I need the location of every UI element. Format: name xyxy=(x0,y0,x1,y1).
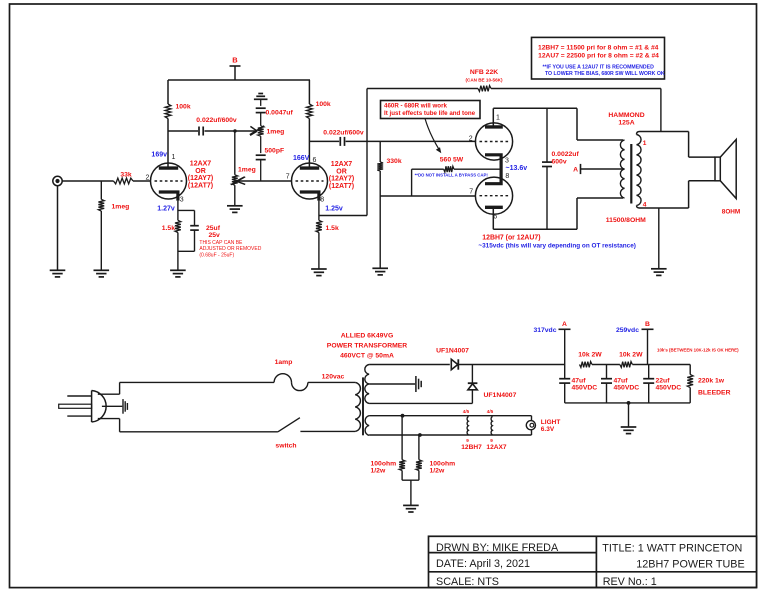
wire lower plate lead xyxy=(492,207,494,229)
wire 100ohm join xyxy=(402,479,419,481)
wire 1.5k V1b to ground xyxy=(318,233,320,270)
wire NFB riser xyxy=(366,89,368,216)
wire secondary bottom to speaker xyxy=(688,181,690,208)
svg-text:2: 2 xyxy=(146,175,150,182)
capacitor 22uf/450VDC xyxy=(648,365,650,379)
svg-text:~315vdc (this will vary depend: ~315vdc (this will vary depending on OT … xyxy=(478,243,636,250)
transformer T2 primary (Hammond 125A) xyxy=(620,140,624,198)
capacitor 500pF xyxy=(256,154,266,156)
ground (filter) xyxy=(621,426,637,428)
svg-text:100k: 100k xyxy=(316,101,331,108)
wire 560 to cathode xyxy=(454,168,501,170)
switch xyxy=(278,418,300,432)
svg-text:12BH7 (or 12AU7): 12BH7 (or 12AU7) xyxy=(482,235,540,242)
chassis entry grommet xyxy=(122,399,124,414)
wire 100k to plate junction xyxy=(167,119,169,169)
svg-text:0.022uf/600v: 0.022uf/600v xyxy=(196,117,237,124)
node A (OT center tap) xyxy=(580,164,582,174)
AC plug body xyxy=(91,391,93,423)
potentiometer 1meg (tone) xyxy=(258,126,264,136)
svg-text:~13.6v: ~13.6v xyxy=(506,165,528,172)
wire filter bottom rail xyxy=(565,402,691,404)
svg-text:259vdc: 259vdc xyxy=(616,327,639,334)
triode V1b 12AX7 xyxy=(292,163,328,199)
transformer T2 secondary xyxy=(637,135,642,206)
svg-text:330k: 330k xyxy=(387,158,402,165)
wire rail 1 xyxy=(592,364,620,366)
wire plate bottom to OT xyxy=(493,228,577,230)
ground (hum balance) xyxy=(403,504,419,506)
ground (input 1meg) xyxy=(94,269,110,271)
svg-text:317vdc: 317vdc xyxy=(533,327,556,334)
resistor 560 5W (12BH7 cathode) xyxy=(444,166,454,172)
svg-text:8: 8 xyxy=(505,173,509,180)
resistor 10k 2W first xyxy=(580,362,593,368)
svg-text:12AX7: 12AX7 xyxy=(331,161,353,168)
svg-text:DATE: April 3, 2021: DATE: April 3, 2021 xyxy=(436,558,530,570)
wire 1meg to ground xyxy=(100,211,102,270)
svg-text:(12AT7): (12AT7) xyxy=(188,182,213,189)
AC plug prongs xyxy=(67,395,91,397)
wire 330k to lower grid wire xyxy=(379,171,381,196)
svg-text:166V: 166V xyxy=(293,155,310,162)
wire secondary top to speaker xyxy=(688,132,690,158)
svg-text:10k 2W: 10k 2W xyxy=(619,352,643,359)
wire 560 riser xyxy=(411,169,413,196)
resistor 1.5k (V1b cathode) xyxy=(316,220,322,232)
input jack J1 xyxy=(53,176,62,185)
wire cathode down xyxy=(177,201,179,221)
svg-text:12AX7: 12AX7 xyxy=(486,444,506,451)
svg-text:47uf: 47uf xyxy=(614,377,629,384)
junction dot heater top xyxy=(401,414,405,418)
svg-text:4/5: 4/5 xyxy=(463,409,470,414)
transformer T1 core xyxy=(362,377,364,435)
wire bypass cap to cathode bottom xyxy=(194,230,196,251)
capacitor 25uf/25v (cathode bypass) xyxy=(190,225,199,227)
wire ground to 0.0047uf xyxy=(260,99,262,106)
svg-text:11500/8OHM: 11500/8OHM xyxy=(606,217,646,224)
junction dot pots xyxy=(233,129,236,132)
wire bypass cap branch xyxy=(178,209,195,211)
svg-text:0.022uf/600v: 0.022uf/600v xyxy=(323,130,364,137)
chassis ground (center tap) xyxy=(415,376,417,392)
svg-text:1: 1 xyxy=(172,154,176,161)
resistor 33k (grid stopper) xyxy=(114,178,134,184)
svg-text:B: B xyxy=(232,56,238,65)
ground (OT secondary) xyxy=(651,268,667,270)
svg-text:3: 3 xyxy=(180,197,184,204)
wire tone pot to 500pF xyxy=(260,136,262,153)
svg-text:**IF YOU USE A 12AU7 IT IS REC: **IF YOU USE A 12AU7 IT IS RECOMMENDED xyxy=(543,65,655,71)
svg-text:1/2w: 1/2w xyxy=(430,468,445,475)
heater 12BH7 xyxy=(467,417,468,435)
svg-text:1meg: 1meg xyxy=(112,204,130,211)
svg-text:460R - 680R will work: 460R - 680R will work xyxy=(384,103,447,110)
wire 100ohm right bottom xyxy=(418,471,420,481)
svg-text:(12AY7): (12AY7) xyxy=(329,176,354,183)
wire plug hot lead xyxy=(98,393,120,395)
wire cap to pots junction xyxy=(205,130,236,132)
wire rail 2 xyxy=(632,364,690,366)
wire junction down to volume pot xyxy=(234,131,236,175)
ground (volume pot) xyxy=(227,205,243,207)
wire 0.0022 cap top xyxy=(546,108,548,162)
junction dot filter ground xyxy=(627,401,631,405)
svg-text:450VDC: 450VDC xyxy=(656,384,682,391)
wire heater tap left xyxy=(401,416,403,460)
node B (B+ supply terminal) xyxy=(230,65,241,67)
wire lower grid (pin7) wire xyxy=(380,195,475,197)
triode 12BH7 upper half xyxy=(475,123,512,160)
svg-text:TITLE: 1 WATT PRINCETON: TITLE: 1 WATT PRINCETON xyxy=(602,542,742,554)
svg-text:8: 8 xyxy=(320,197,324,204)
svg-text:100k: 100k xyxy=(176,104,191,111)
svg-text:12AX7: 12AX7 xyxy=(190,161,212,168)
AC plug cord xyxy=(102,405,122,407)
wire HV center tap xyxy=(369,383,415,385)
transformer T1 primary xyxy=(355,382,360,431)
svg-text:25v: 25v xyxy=(209,232,221,239)
heater 12AX7 xyxy=(491,417,492,435)
svg-text:560 5W: 560 5W xyxy=(440,157,464,164)
transformer T1 HV secondary xyxy=(365,365,369,404)
svg-text:A: A xyxy=(573,167,578,174)
svg-text:switch: switch xyxy=(275,443,296,450)
svg-text:6: 6 xyxy=(313,157,317,164)
wire bus to 100k left xyxy=(167,80,169,104)
wire filter ground stem xyxy=(628,403,630,427)
svg-text:500pF: 500pF xyxy=(265,148,285,155)
svg-text:10k's (BETWEEN 10K-12k IS OK H: 10k's (BETWEEN 10K-12k IS OK HERE) xyxy=(657,348,739,353)
svg-text:33k: 33k xyxy=(120,172,132,179)
svg-text:B: B xyxy=(645,321,650,328)
wire HV top to diode xyxy=(369,364,450,366)
svg-text:1.5k: 1.5k xyxy=(162,225,175,232)
wire plate junction to coupling cap xyxy=(168,130,198,132)
capacitor 47uf/450VDC first xyxy=(564,365,566,379)
svg-text:7: 7 xyxy=(469,189,473,196)
svg-text:ADJUSTED OR REMOVED: ADJUSTED OR REMOVED xyxy=(199,246,261,252)
speaker 8OHM xyxy=(715,157,720,181)
svg-text:12BH7 POWER TUBE: 12BH7 POWER TUBE xyxy=(636,559,744,571)
svg-text:HAMMOND: HAMMOND xyxy=(608,112,644,119)
svg-text:1.27v: 1.27v xyxy=(157,206,175,213)
diode D1 UF1N4007 xyxy=(451,359,458,369)
svg-text:4: 4 xyxy=(643,202,647,209)
svg-text:12BH7: 12BH7 xyxy=(461,444,482,451)
wire 6.3v top xyxy=(369,415,531,417)
svg-text:100ohm: 100ohm xyxy=(371,461,397,468)
wire D2 to HV bottom xyxy=(471,390,473,404)
resistor 100ohm left xyxy=(399,460,405,471)
node B terminal xyxy=(642,328,654,330)
svg-text:(12AT7): (12AT7) xyxy=(329,183,354,190)
svg-text:1amp: 1amp xyxy=(275,359,293,366)
triode 12BH7 lower half xyxy=(475,177,512,214)
wire 100k to V1b plate xyxy=(308,119,310,169)
svg-text:TO LOWER THE BIAS, 680R SW WIL: TO LOWER THE BIAS, 680R SW WILL WORK OK xyxy=(545,71,665,77)
wire riser to 560 xyxy=(412,168,444,170)
svg-text:NFB 22K: NFB 22K xyxy=(470,69,498,76)
svg-text:POWER TRANSFORMER: POWER TRANSFORMER xyxy=(327,343,408,350)
wire 6.3v bottom xyxy=(369,434,531,436)
svg-text:THIS CAP CAN BE: THIS CAP CAN BE xyxy=(199,240,243,246)
svg-text:0.0047uf: 0.0047uf xyxy=(266,110,294,117)
svg-text:It just effects tube life and: It just effects tube life and tone xyxy=(384,110,476,117)
fuse 1amp xyxy=(274,374,291,383)
resistor 100k (V1b plate load) xyxy=(307,104,313,119)
svg-text:1meg: 1meg xyxy=(267,129,285,136)
diode D2 UF1N4007 xyxy=(468,382,478,384)
arrow from note box to 560 xyxy=(425,119,440,151)
transformer T2 core xyxy=(630,144,632,204)
resistor 1.5k (V1a cathode) xyxy=(175,220,181,232)
svg-text:4/5: 4/5 xyxy=(487,409,494,414)
svg-text:25uf: 25uf xyxy=(206,225,221,232)
svg-text:460VCT @ 50mA: 460VCT @ 50mA xyxy=(340,353,394,360)
ground (V1b cathode) xyxy=(311,268,327,270)
ground (jack) xyxy=(50,269,66,271)
svg-text:120vac: 120vac xyxy=(322,374,345,381)
wire 0.0022 cap bottom xyxy=(546,167,548,230)
wire fuse to PT xyxy=(308,381,355,383)
resistor 330k (12BH7 grid leak) xyxy=(377,162,383,171)
svg-text:(0.68uF - 25uF): (0.68uF - 25uF) xyxy=(199,252,234,258)
capacitor 47uf/450VDC second xyxy=(606,365,608,379)
svg-text:450VDC: 450VDC xyxy=(572,384,598,391)
capacitor 0.022uf/600v (second coupling) xyxy=(339,137,341,146)
transformer T1 filament winding xyxy=(365,416,369,436)
svg-text:OR: OR xyxy=(195,168,206,175)
svg-text:UF1N4007: UF1N4007 xyxy=(484,392,517,399)
wire plate top to OT xyxy=(493,107,577,109)
svg-text:9: 9 xyxy=(490,438,493,443)
svg-text:1.25v: 1.25v xyxy=(325,206,343,213)
resistor NFB 22K xyxy=(478,86,491,92)
capacitor 0.0022uf/600v (across primary) xyxy=(542,161,552,163)
node A terminal xyxy=(559,328,571,330)
wire 500pF to grid wire xyxy=(260,160,262,181)
wire grid wire to 330k xyxy=(379,141,381,162)
junction dot heater bottom xyxy=(418,433,422,437)
wire D2 branch xyxy=(471,365,473,384)
svg-text:A: A xyxy=(562,321,567,328)
wire diode junction to A xyxy=(459,364,565,366)
svg-text:9: 9 xyxy=(466,438,469,443)
wire secondary to ground xyxy=(658,208,660,269)
wire B+ bus xyxy=(168,79,310,81)
svg-text:22uf: 22uf xyxy=(656,377,671,384)
svg-text:(CAN BE 10-56K): (CAN BE 10-56K) xyxy=(465,77,502,82)
svg-text:169v: 169v xyxy=(151,152,167,159)
wire switch to PT xyxy=(300,430,355,432)
wire 33k to V1a grid xyxy=(133,180,151,182)
wire NFB top right xyxy=(491,88,661,90)
svg-text:125A: 125A xyxy=(618,120,634,127)
info box transformer taps xyxy=(532,37,665,79)
resistor 10k 2W second xyxy=(620,362,633,368)
wire hum ground stem xyxy=(410,480,412,505)
svg-text:12BH7 = 11500 pri for 8 ohm =: 12BH7 = 11500 pri for 8 ohm = #1 & #4 xyxy=(538,44,659,51)
wire NFB top left xyxy=(367,88,478,90)
wire upper plate lead xyxy=(492,108,494,127)
svg-text:BLEEDER: BLEEDER xyxy=(698,389,731,396)
wire volume pot to ground xyxy=(234,185,236,206)
ground (V1a cathode) xyxy=(170,269,186,271)
wire heater tap right xyxy=(418,435,420,460)
capacitor 0.0047uf xyxy=(256,107,266,109)
wire plug neutral lead xyxy=(98,418,120,420)
wire NFB to secondary xyxy=(660,89,662,132)
title block xyxy=(429,536,757,587)
svg-text:1/2w: 1/2w xyxy=(371,468,386,475)
resistor 220k 1w bleeder xyxy=(689,365,691,375)
svg-text:REV No.: 1: REV No.: 1 xyxy=(603,576,657,588)
capacitor 0.022uf/600v (first coupling) xyxy=(198,127,200,136)
svg-text:DRWN BY: MIKE FREDA: DRWN BY: MIKE FREDA xyxy=(436,542,559,554)
pilot lamp LIGHT 6.3V xyxy=(531,416,533,421)
svg-text:ALLIED 6K49VG: ALLIED 6K49VG xyxy=(341,333,394,340)
svg-text:OR: OR xyxy=(336,168,347,175)
resistor 100ohm right xyxy=(416,460,422,471)
svg-text:600v: 600v xyxy=(552,159,567,166)
wire bus to 100k right xyxy=(308,80,310,104)
svg-text:8OHM: 8OHM xyxy=(722,209,740,216)
svg-text:1meg: 1meg xyxy=(238,167,256,174)
svg-text:7: 7 xyxy=(286,173,290,180)
wire junction to 1meg xyxy=(100,181,102,199)
wire 100ohm left bottom xyxy=(401,471,403,481)
12BH7 cathodes (joined) xyxy=(485,155,501,184)
wire cap2 to 12BH7 grid xyxy=(346,140,477,142)
wire wiper arrow volume pot xyxy=(236,177,244,181)
wire plate junction to coupling cap 2 xyxy=(309,140,339,142)
svg-text:1: 1 xyxy=(496,115,500,122)
wire jack to 33k xyxy=(62,180,113,182)
wire wiper arrow to tone pot xyxy=(235,130,256,132)
svg-text:SCALE: NTS: SCALE: NTS xyxy=(436,576,499,588)
svg-text:(12AY7): (12AY7) xyxy=(188,175,213,182)
svg-text:**DO NOT INSTALL A BYPASS CAP!: **DO NOT INSTALL A BYPASS CAP! xyxy=(415,173,489,178)
svg-text:10k 2W: 10k 2W xyxy=(578,352,602,359)
svg-text:6.3V: 6.3V xyxy=(541,426,555,433)
svg-text:2: 2 xyxy=(469,135,473,142)
svg-text:220k 1w: 220k 1w xyxy=(698,377,725,384)
potentiometer 1meg (volume) xyxy=(232,175,238,185)
resistor 1meg (input load) xyxy=(98,199,104,211)
svg-text:450VDC: 450VDC xyxy=(614,384,640,391)
note box 460R-680R xyxy=(381,101,481,119)
wire 0.0047uf to tone pot xyxy=(260,113,262,126)
svg-text:LIGHT: LIGHT xyxy=(541,419,561,426)
svg-text:UF1N4007: UF1N4007 xyxy=(436,348,469,355)
ground (inverted, tone stack top) xyxy=(254,98,268,100)
svg-text:1: 1 xyxy=(643,140,647,147)
svg-text:3: 3 xyxy=(505,157,509,164)
svg-text:100ohm: 100ohm xyxy=(430,461,456,468)
wire V1b cathode down xyxy=(318,201,320,221)
svg-text:0.0022uf: 0.0022uf xyxy=(552,151,580,158)
ground (330k / lower grid) xyxy=(372,267,388,269)
wire NFB from cathode xyxy=(319,215,367,217)
svg-text:12AU7 = 22500 pri for 8 ohm =: 12AU7 = 22500 pri for 8 ohm = #2 & #4 xyxy=(538,53,659,60)
wire 1.5k to ground xyxy=(177,233,179,271)
wire lower grid to ground xyxy=(379,196,381,268)
svg-text:47uf: 47uf xyxy=(572,377,587,384)
resistor 100k (V1a plate load) xyxy=(165,104,171,119)
wire jack sleeve to ground xyxy=(57,186,59,271)
triode V1a 12AX7 xyxy=(151,163,187,199)
svg-text:1.5k: 1.5k xyxy=(326,225,339,232)
